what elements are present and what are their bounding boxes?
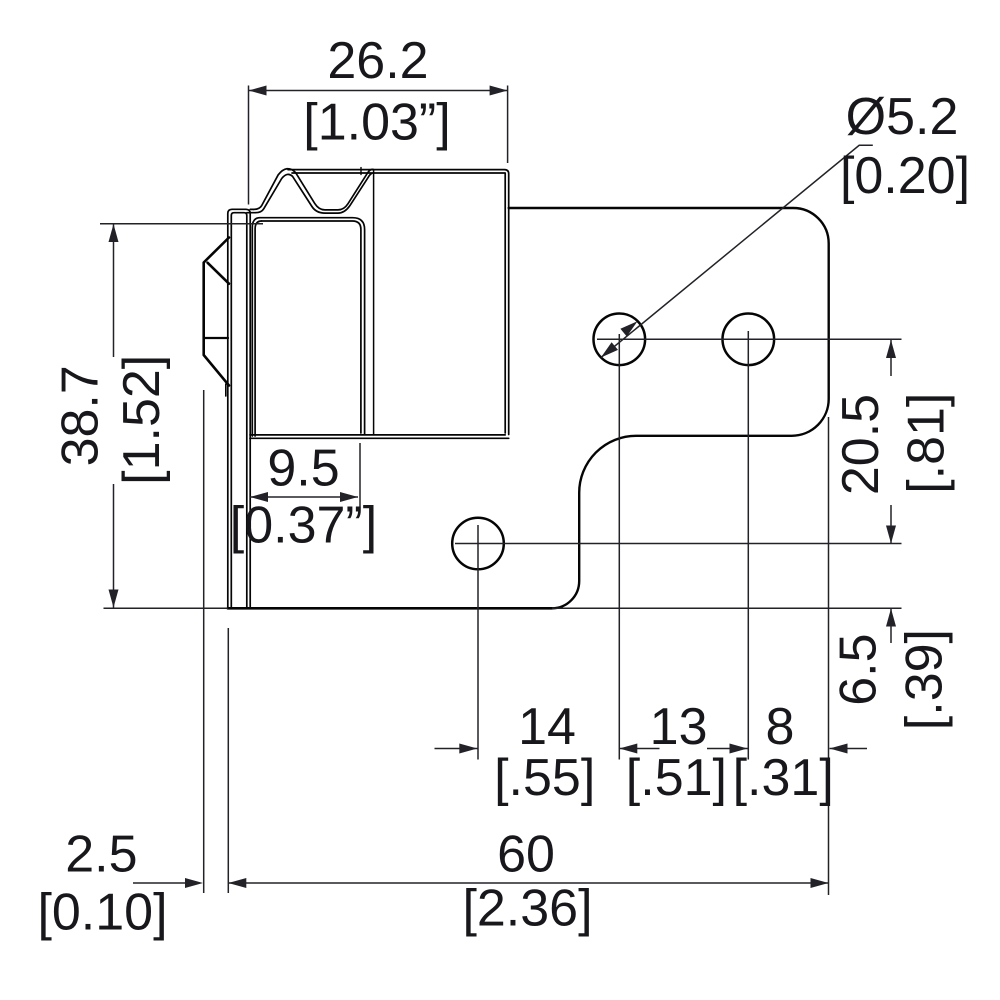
svg-text:6.5: 6.5	[829, 633, 887, 705]
svg-text:[.55]: [.55]	[494, 749, 595, 807]
block top edge inner	[292, 173, 505, 433]
mounting plate inner lines	[231, 213, 247, 608]
svg-text:[0.20]: [0.20]	[840, 147, 970, 205]
block bottom edge outer	[250, 437, 509, 439]
block top edge outer	[288, 170, 509, 435]
flange inner rectangle top and right, inner	[262, 221, 361, 433]
flange top ledge outer	[250, 208, 253, 210]
extension line 26.2 right	[507, 86, 509, 164]
dim 13 inside arrow right	[707, 748, 748, 750]
svg-text:20.5: 20.5	[832, 394, 890, 495]
svg-text:[1.52]: [1.52]	[113, 355, 171, 485]
dim 14 outside arrows	[435, 748, 478, 750]
centerline vertical hole upper-left	[618, 334, 620, 760]
svg-text:2.5: 2.5	[65, 826, 137, 884]
svg-text:Ø5.2: Ø5.2	[846, 88, 959, 146]
extension line 9.5 right	[359, 443, 361, 507]
top edge tick	[360, 168, 362, 175]
svg-text:26.2: 26.2	[327, 32, 428, 90]
svg-text:[.81]: [.81]	[897, 393, 955, 494]
base plate outline (top and right with step)	[509, 208, 829, 608]
left pawl bump inner diagonal	[208, 263, 230, 284]
extension line top-left for 38.7	[100, 223, 263, 225]
svg-text:38.7: 38.7	[52, 365, 110, 466]
dim 60 line	[228, 882, 828, 884]
left pawl bump horizontal rib	[204, 337, 228, 339]
hole upper-left	[594, 314, 646, 366]
svg-text:9.5: 9.5	[267, 440, 339, 498]
flange inner rectangle top and right, outer	[260, 218, 365, 435]
dim 20.5 line	[890, 340, 892, 376]
extension line 2.5 right	[227, 628, 229, 893]
svg-text:14: 14	[518, 698, 576, 756]
extension line 2.5 left	[203, 390, 205, 893]
hump outer profile	[254, 169, 375, 210]
flange joggle left vertical inner	[255, 221, 261, 436]
centerline horizontal hole lower-left	[455, 543, 902, 545]
dim 6.5 arrow below bottom edge	[890, 609, 892, 644]
centerline horizontal through upper holes to 20.5 dim	[597, 338, 902, 340]
svg-text:[0.10]: [0.10]	[37, 884, 167, 942]
dim 8 arrow at right edge	[830, 748, 868, 750]
block bottom edge inner	[250, 434, 505, 436]
flange top ledge inner	[247, 212, 256, 214]
svg-text:[0.37”]: [0.37”]	[230, 497, 377, 555]
dim 26.2 line	[249, 90, 508, 92]
hole upper-right	[723, 314, 775, 366]
flange joggle left vertical outer	[252, 218, 260, 436]
centerline vertical hole lower-left	[477, 525, 479, 760]
flange right vertical edge	[373, 171, 375, 435]
dim 9.5 line	[250, 496, 358, 498]
extension line 26.2 left	[248, 86, 250, 205]
extension line bottom-left for 38.7	[104, 607, 228, 609]
svg-text:[2.36]: [2.36]	[462, 880, 592, 938]
extension line bottom edge to right	[552, 607, 902, 609]
pawl bump lower tick	[225, 384, 227, 396]
svg-text:[.31]: [.31]	[733, 749, 834, 807]
svg-text:60: 60	[497, 826, 555, 884]
centerline vertical hole upper-right	[747, 331, 749, 760]
hump inner profile	[256, 173, 373, 213]
left pawl bump outline	[204, 238, 229, 386]
dim 38.7 line	[113, 224, 115, 357]
leader diameter 5.2	[601, 145, 873, 357]
svg-text:[.39]: [.39]	[895, 629, 953, 730]
hole lower-left	[452, 518, 504, 570]
svg-text:8: 8	[766, 698, 795, 756]
svg-text:[.51]: [.51]	[626, 749, 727, 807]
base plate bottom edge	[228, 607, 552, 610]
svg-text:13: 13	[650, 698, 708, 756]
mounting plate (thin vertical plate, edge view) outer	[228, 209, 250, 608]
svg-text:[1.03”]: [1.03”]	[303, 94, 450, 152]
extension line 60 right	[828, 417, 830, 895]
dim 2.5 leader arrow	[133, 882, 197, 884]
